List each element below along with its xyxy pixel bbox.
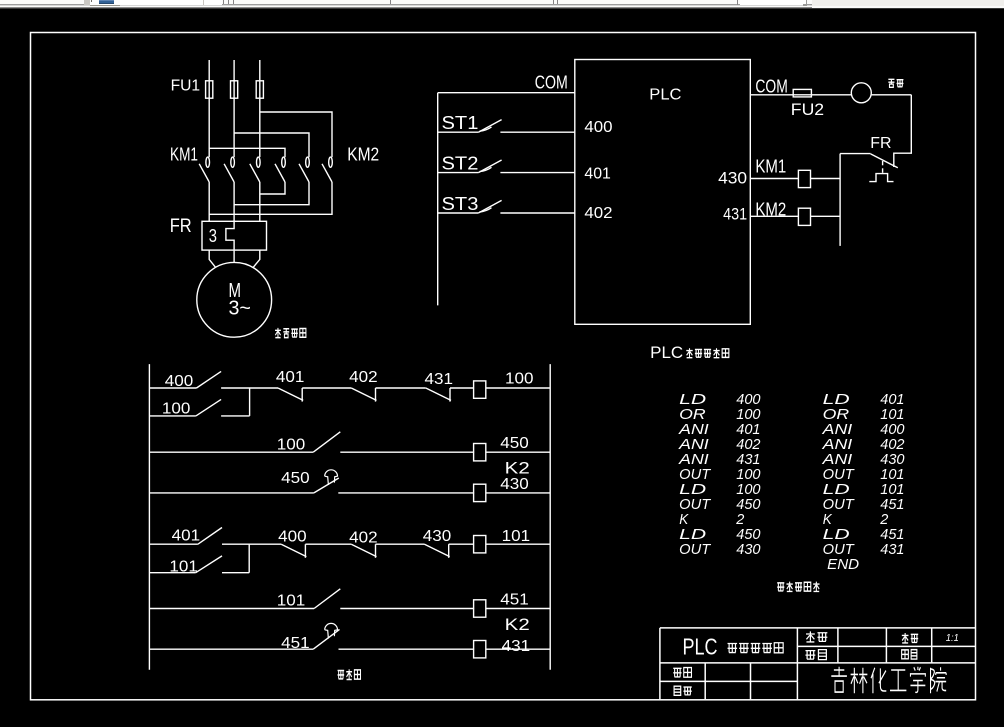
contact blade 4 (275, 164, 285, 182)
FR reset button symbol (869, 174, 893, 182)
wire coil KM1 to bus (811, 178, 841, 180)
svg-text:K2: K2 (505, 615, 530, 634)
svg-text:PLC: PLC (650, 344, 683, 362)
contact blade 1 (199, 164, 209, 182)
contact terminal 5 (306, 157, 310, 167)
output coil 430 (474, 484, 486, 501)
svg-text:3: 3 (209, 225, 217, 246)
svg-text:ST1: ST1 (442, 113, 479, 133)
contact blade 6 (322, 164, 332, 182)
title block col line d (837, 628, 839, 663)
svg-text:100: 100 (505, 370, 534, 387)
switch ST2 blade (478, 160, 501, 173)
svg-text:402: 402 (584, 205, 612, 222)
toolbar small dark tick in button (91, 0, 92, 2)
title block col line a (704, 663, 706, 699)
NO contact 101 rung5 (314, 589, 340, 609)
rung2 wire mid (340, 451, 474, 453)
branch junction vertical (249, 388, 251, 416)
switch ST3 right wire (500, 212, 574, 214)
cell 数量 (805, 651, 815, 660)
toolbar white face (0, 0, 1004, 4)
svg-text:2: 2 (879, 512, 888, 528)
output coil 100 (474, 381, 486, 398)
cell 共数 (806, 631, 815, 642)
svg-text:101: 101 (880, 467, 904, 483)
svg-text:101: 101 (880, 482, 904, 498)
toolbar light line (0, 5, 1004, 6)
rung1 wire b (302, 387, 351, 389)
contact terminal 3 (257, 157, 261, 167)
svg-text:ANI: ANI (678, 452, 709, 468)
svg-text:430: 430 (423, 528, 452, 545)
svg-text:100: 100 (736, 467, 760, 483)
svg-text:OR: OR (679, 407, 706, 423)
rung2 wire left (149, 451, 313, 453)
svg-text:K2: K2 (505, 459, 530, 478)
toolbar left separator zone (84, 0, 90, 5)
FR contact left wire (840, 153, 871, 155)
svg-text:LD: LD (679, 527, 706, 543)
svg-text:401: 401 (736, 422, 760, 438)
toolbar separator ticks after field A (223, 0, 224, 4)
toolbar button shadow (90, 5, 121, 6)
svg-text:ANI: ANI (821, 452, 852, 468)
svg-text:401: 401 (276, 369, 305, 386)
svg-text:431: 431 (502, 638, 531, 655)
svg-text:PLC: PLC (649, 86, 681, 103)
rung5 wire right (486, 608, 550, 610)
svg-text:101: 101 (880, 407, 904, 423)
FR trip linkage dashes (882, 161, 884, 165)
wire PLC 430 to coil KM1 (750, 178, 798, 180)
switch ST3 hook (480, 208, 492, 212)
svg-text:431: 431 (425, 371, 454, 388)
coil KM1 (798, 170, 810, 187)
cell 图号 (902, 650, 909, 659)
svg-text:KM1: KM1 (755, 157, 786, 177)
ladder right rail (549, 364, 551, 670)
svg-text:LD: LD (679, 392, 706, 408)
contact blade 2 (224, 164, 234, 182)
output coil 451 (474, 600, 486, 617)
svg-text:400: 400 (278, 528, 307, 545)
switch ST1 left wire (438, 131, 479, 133)
toolbar field B (740, 0, 806, 5)
svg-text:OUT: OUT (823, 497, 855, 513)
rung4 wire a (222, 543, 281, 545)
contact terminal 6 (329, 157, 333, 167)
svg-text:LD: LD (823, 392, 850, 408)
svg-text:400: 400 (880, 422, 904, 438)
rung4 wire d (449, 543, 473, 545)
wire source to corner (871, 94, 911, 96)
wire KM2 contact6 to L1 (209, 182, 332, 214)
svg-text:KM1: KM1 (170, 144, 198, 165)
rung6 wire right (486, 648, 550, 650)
rung2 wire right (486, 451, 550, 453)
svg-text:451: 451 (281, 635, 310, 652)
svg-text:K: K (823, 512, 833, 528)
toolbar separator mid 1 (390, 0, 391, 4)
rung5 wire left (149, 608, 314, 610)
FR contact blade (871, 154, 898, 168)
wire L1 top (208, 60, 210, 157)
svg-text:402: 402 (736, 437, 760, 453)
thermal relay FR box (202, 221, 267, 250)
svg-text:K: K (679, 512, 689, 528)
title block col line e (885, 628, 887, 663)
wire return bus vertical (839, 154, 841, 246)
svg-text:LD: LD (823, 482, 850, 498)
wire PLC 431 to coil KM2 (750, 215, 798, 217)
toolbar mid gray band (0, 4, 1004, 6)
svg-text:402: 402 (349, 530, 378, 547)
switch ST1 blade (478, 120, 501, 133)
wire L2 top (233, 60, 235, 157)
wire L1 to motor (209, 250, 216, 268)
svg-text:100: 100 (736, 407, 760, 423)
rung1 wire e (486, 387, 550, 389)
caption 梯形图 (338, 671, 345, 679)
toolbar strip (bottom of windows toolbar) (0, 0, 1004, 9)
toolbar right light segment (812, 0, 1004, 6)
branch4 wire left (149, 572, 195, 574)
svg-text:401: 401 (584, 165, 611, 182)
toolbar separator mid 2 (553, 0, 554, 4)
svg-text:431: 431 (880, 542, 904, 558)
svg-text:ANI: ANI (678, 422, 709, 438)
rung4 wire c (376, 543, 425, 545)
svg-text:KM2: KM2 (347, 144, 379, 165)
svg-text:430: 430 (500, 476, 529, 493)
branch4 wire right (222, 572, 249, 574)
FR heater element on L2 (226, 221, 234, 250)
cell 制图 (673, 668, 681, 677)
svg-text:2: 2 (735, 512, 744, 528)
rung3 wire left (149, 492, 314, 494)
wire PLC to FU2 (750, 94, 851, 96)
output coil 101 (474, 536, 486, 553)
caption 指令语句表 (777, 583, 784, 591)
switch ST2 right wire (500, 172, 574, 174)
svg-text:1:1: 1:1 (946, 633, 959, 644)
contact terminal 4 (282, 157, 286, 167)
fuse FU1 phase C (256, 81, 263, 98)
svg-text:450: 450 (281, 470, 310, 487)
svg-text:LD: LD (679, 482, 706, 498)
rung6 wire mid (339, 648, 475, 650)
wire KM2 contact4 to L3 (260, 182, 285, 194)
svg-text:100: 100 (277, 436, 306, 453)
wire KM2 contact5 to L2 (234, 182, 309, 205)
wire crossover L1 to KM2 contact 4 (209, 148, 285, 157)
contact terminal 2 (231, 157, 235, 167)
NO contact 101 (196, 556, 222, 573)
svg-text:ANI: ANI (821, 422, 852, 438)
title block col line f (931, 628, 933, 663)
switch ST1 right wire (500, 131, 574, 133)
svg-text:101: 101 (502, 528, 531, 545)
caption 主电路图 (275, 328, 281, 338)
NO contact 100 rung2 (313, 432, 340, 452)
power source label 电源 (888, 79, 894, 87)
switch ST2 left wire (438, 172, 479, 174)
title block row line 1 (797, 645, 975, 647)
svg-text:ST3: ST3 (442, 194, 479, 214)
contact blade 3 (250, 164, 260, 182)
svg-text:431: 431 (723, 205, 747, 224)
wire L2 to motor (233, 250, 235, 262)
svg-text:430: 430 (736, 542, 760, 558)
NO contact 401 (198, 528, 222, 545)
toolbar field B right bracket (806, 0, 808, 6)
svg-text:100: 100 (162, 401, 191, 418)
title 控制原理图 (728, 643, 738, 652)
svg-text:400: 400 (736, 392, 760, 408)
motor M circle (197, 262, 272, 337)
svg-text:OUT: OUT (823, 467, 855, 483)
output coil 431 (474, 641, 486, 658)
svg-text:450: 450 (500, 435, 529, 452)
latched contact 451 hook (325, 623, 338, 638)
svg-text:401: 401 (880, 392, 904, 408)
wire COM rail vertical (437, 93, 439, 306)
NC contact 402 rung4 (351, 544, 376, 556)
wire COM rail horizontal (438, 92, 575, 94)
svg-text:430: 430 (880, 452, 904, 468)
svg-text:401: 401 (172, 528, 201, 545)
svg-text:COM: COM (755, 76, 787, 96)
svg-text:450: 450 (736, 497, 760, 513)
rung3 wire mid (338, 492, 474, 494)
svg-text:FR: FR (170, 216, 192, 237)
wire L1 to FR (208, 182, 210, 221)
title block col line b (750, 663, 752, 699)
rung4 wire left (149, 543, 198, 545)
toolbar blue icon (99, 0, 114, 1)
latched contact 450 hook (325, 470, 338, 485)
svg-text:451: 451 (880, 497, 904, 513)
svg-text:101: 101 (169, 558, 198, 575)
ladder left rail (148, 364, 150, 670)
NO contact 100 (196, 399, 221, 416)
wire L3 to FR (259, 182, 261, 221)
rung1 wire a (221, 387, 278, 389)
svg-text:402: 402 (880, 437, 904, 453)
fuse FU2 (793, 89, 811, 97)
toolbar lower gradient (0, 7, 1004, 8)
wire right drop to FR contact (894, 95, 912, 167)
switch ST3 left wire (438, 212, 479, 214)
NC contact 430 (425, 544, 450, 556)
toolbar button hover (90, 0, 121, 5)
switch ST1 hook (480, 127, 492, 131)
ladder rung 1 wire left (149, 387, 196, 389)
toolbar combo field A (120, 0, 222, 5)
rung5 wire mid (340, 608, 474, 610)
svg-text:OUT: OUT (679, 497, 711, 513)
svg-text:LD: LD (823, 527, 850, 543)
svg-text:430: 430 (718, 168, 747, 187)
wire coil KM2 to bus (811, 215, 841, 217)
power source circle (851, 83, 871, 103)
branch wire left (149, 415, 196, 417)
NC contact 400 (281, 544, 306, 556)
coil KM2 (798, 208, 810, 225)
svg-text:100: 100 (736, 482, 760, 498)
cell 审核 (674, 686, 681, 695)
svg-text:400: 400 (584, 119, 612, 136)
rung3 wire right (486, 492, 550, 494)
latched contact 450 blade (314, 478, 339, 493)
contact terminal 1 (206, 157, 210, 167)
svg-text:FR: FR (870, 135, 891, 152)
wire L3 to motor (253, 250, 260, 268)
svg-text:OUT: OUT (679, 542, 711, 558)
switch ST3 blade (478, 200, 501, 213)
svg-text:402: 402 (349, 369, 378, 386)
toolbar combo A divider (203, 0, 204, 5)
svg-text:3~: 3~ (229, 298, 251, 320)
rung6 wire left (149, 648, 313, 650)
svg-text:OUT: OUT (823, 542, 855, 558)
svg-text:431: 431 (736, 452, 760, 468)
institute 吉林化工学院 (831, 667, 847, 692)
svg-text:ST2: ST2 (442, 154, 479, 174)
rung4 wire e (486, 543, 550, 545)
latched contact 451 blade (313, 629, 339, 649)
title block row line 2 (660, 662, 976, 664)
svg-text:450: 450 (736, 527, 760, 543)
svg-text:451: 451 (500, 592, 529, 609)
svg-text:END: END (827, 557, 859, 573)
svg-text:OUT: OUT (679, 467, 711, 483)
wire crossover L3 to KM2 contact 6 (260, 112, 332, 157)
svg-text:400: 400 (165, 373, 194, 390)
svg-text:101: 101 (277, 592, 306, 609)
svg-text:ANI: ANI (821, 437, 852, 453)
NO contact 400 (197, 371, 222, 388)
rung4 wire b (305, 543, 351, 545)
svg-text:OR: OR (823, 407, 850, 423)
rung1 wire d (450, 387, 473, 389)
svg-text:COM: COM (535, 73, 568, 93)
branch junction vertical rung4 (248, 544, 250, 573)
title block col line c (796, 628, 798, 699)
svg-text:ANI: ANI (678, 437, 709, 453)
title block outline (660, 627, 976, 629)
contact blade 5 (299, 164, 309, 182)
svg-text:FU2: FU2 (791, 101, 824, 119)
switch ST2 hook (480, 167, 492, 171)
svg-text:451: 451 (880, 527, 904, 543)
NC contact 431 (426, 388, 451, 400)
wire L3 top (259, 60, 261, 157)
fuse FU1 phase A (206, 81, 213, 98)
toolbar separator before field B (737, 0, 738, 5)
PLC box U1 (575, 60, 751, 325)
NC contact 402 (351, 388, 376, 400)
wire L2 to FR (233, 182, 235, 221)
branch wire right (221, 415, 250, 417)
fuse FU1 phase B (231, 81, 238, 98)
wire crossover L2 to KM2 contact 5 (234, 133, 309, 157)
cell 比列 (902, 633, 909, 643)
svg-text:PLC: PLC (683, 634, 718, 660)
rung1 wire c (376, 387, 426, 389)
title block row line 3 (660, 680, 798, 682)
NC contact 401 (278, 388, 303, 400)
svg-text:FU1: FU1 (171, 78, 201, 95)
output coil 450 (474, 444, 486, 461)
